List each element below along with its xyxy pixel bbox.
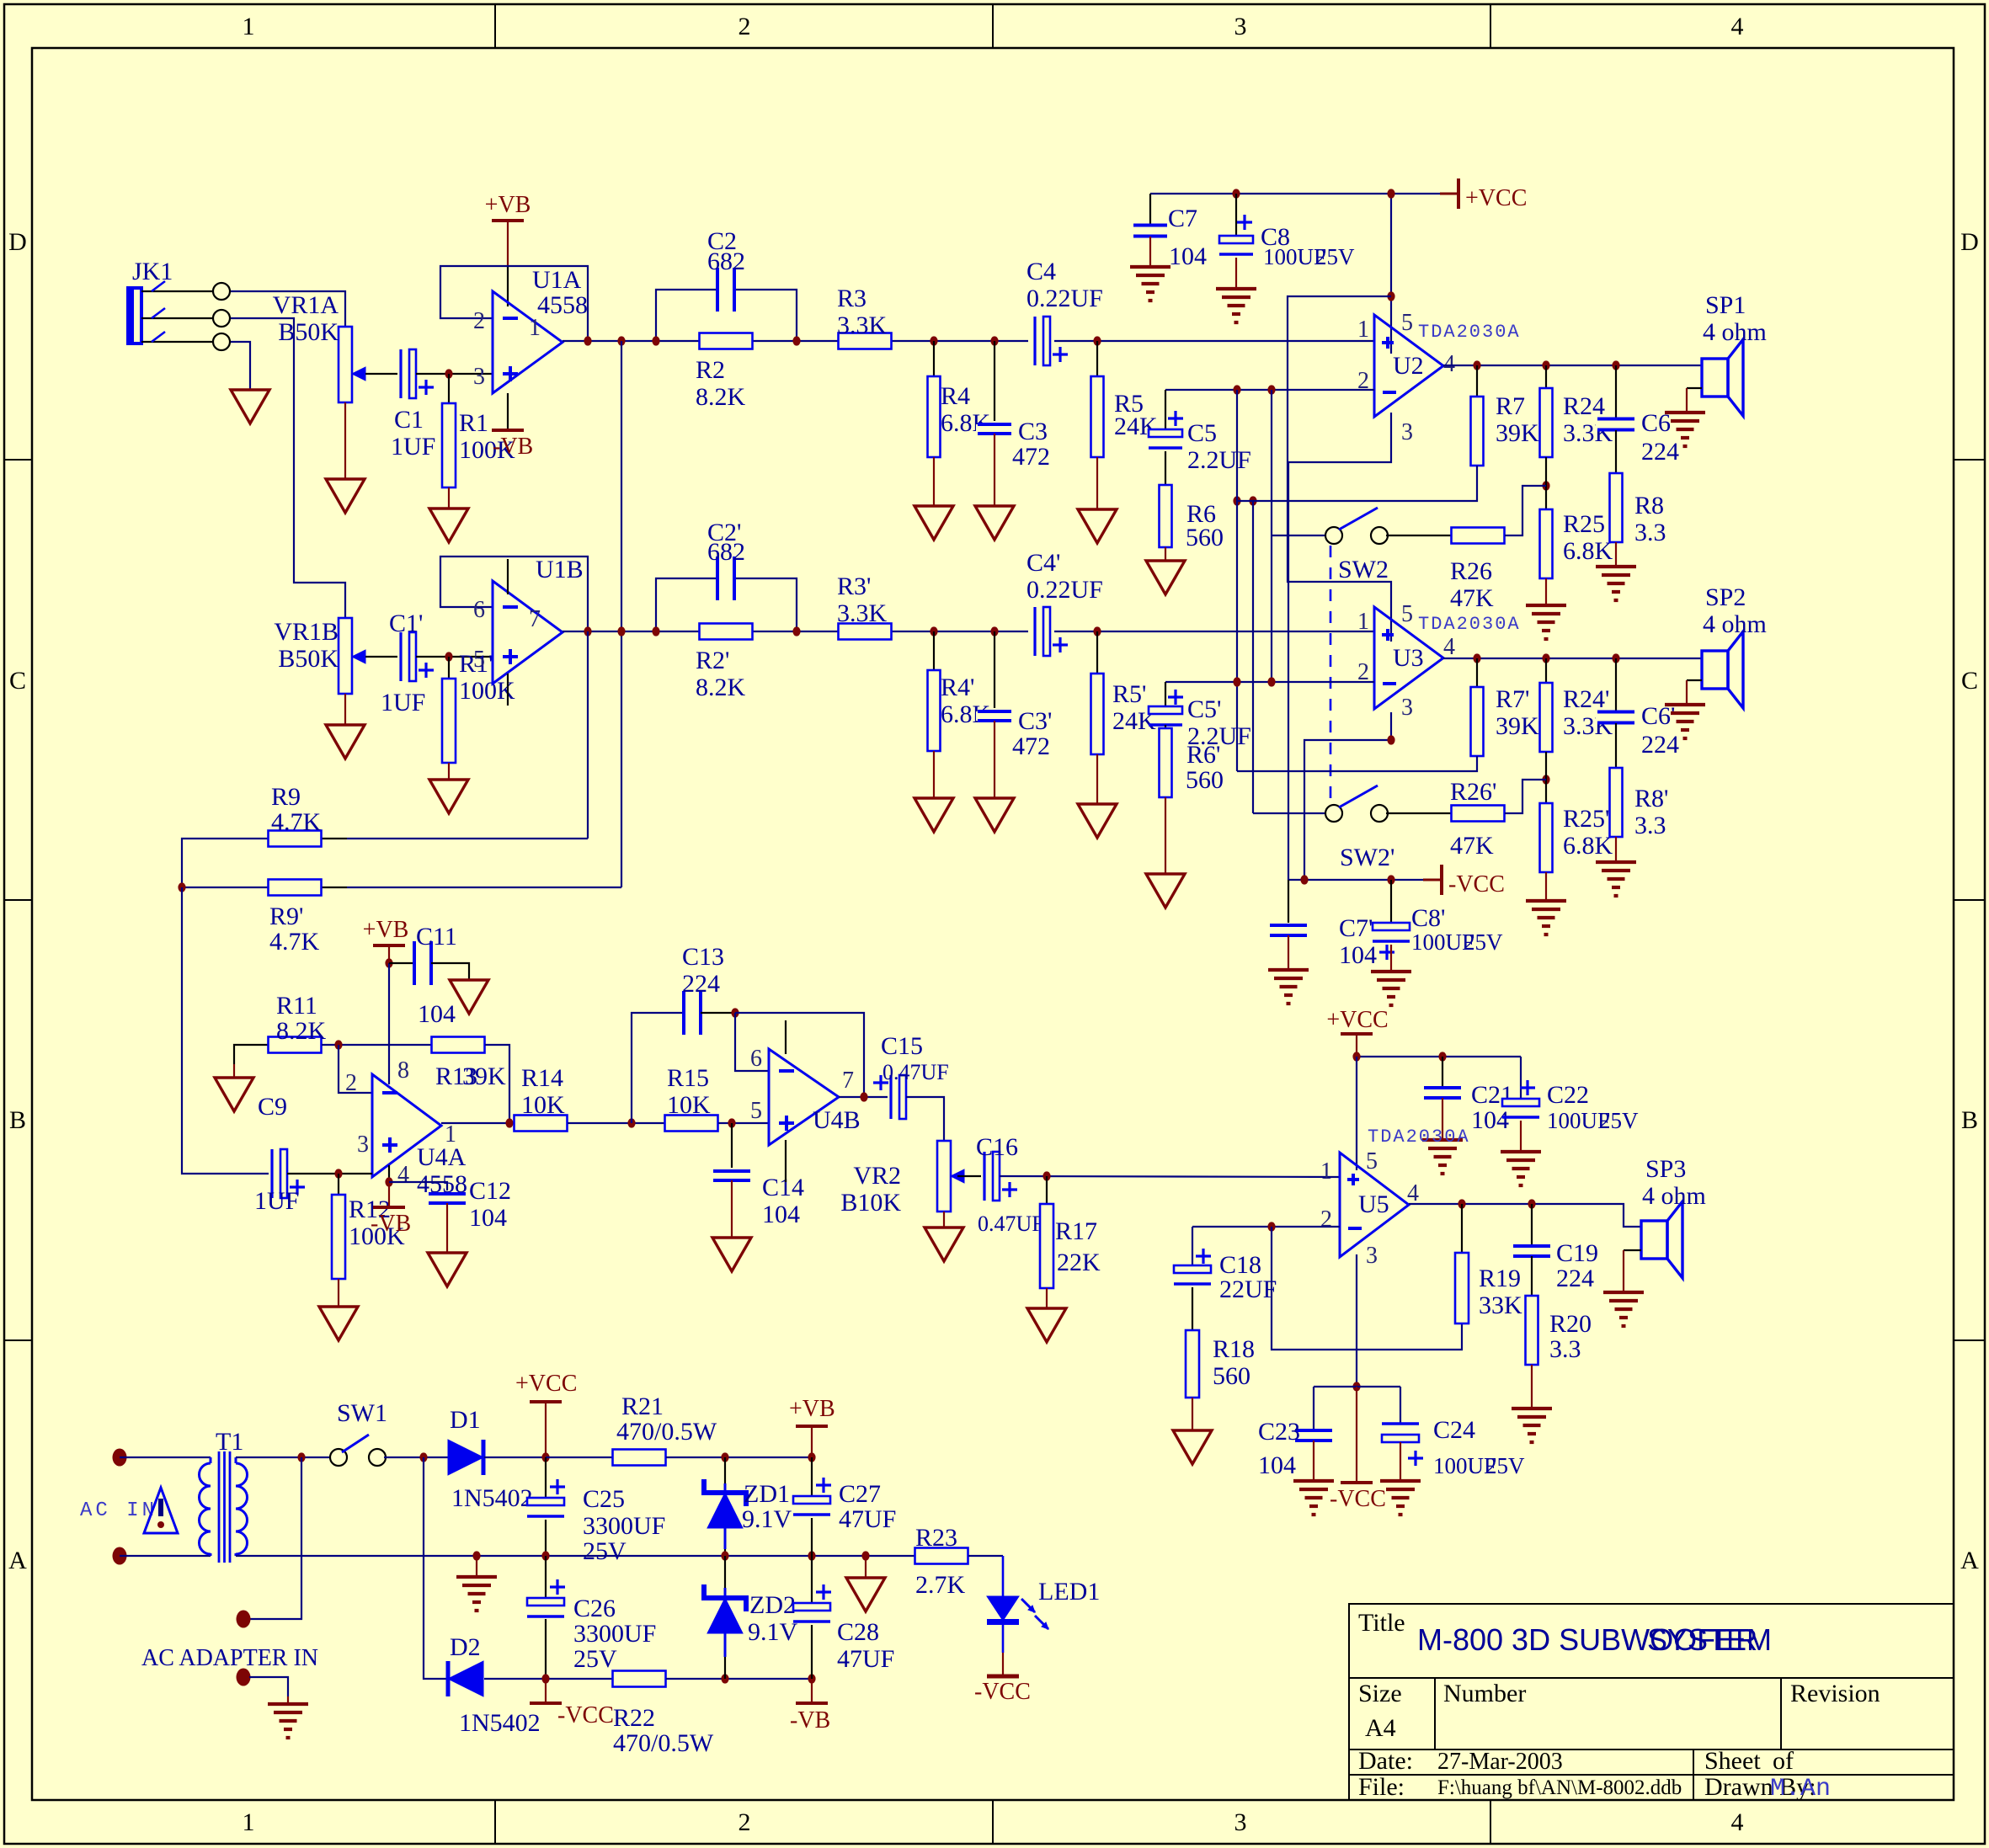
resistor R7 bbox=[1476, 365, 1478, 397]
capacitor C4' bbox=[1032, 605, 1052, 658]
svg-text:104: 104 bbox=[418, 1000, 456, 1028]
svg-text:R8: R8 bbox=[1634, 492, 1664, 519]
svg-text:47K: 47K bbox=[1450, 584, 1494, 612]
capacitor C14 bbox=[731, 1123, 733, 1168]
power -VB supply bbox=[811, 1679, 813, 1702]
svg-text:U5: U5 bbox=[1358, 1190, 1389, 1218]
svg-text:0.22UF: 0.22UF bbox=[1026, 285, 1103, 312]
ground VR1B bbox=[326, 725, 365, 759]
wire R6 to ground bbox=[1165, 547, 1166, 561]
wire R25' to ground bbox=[1545, 872, 1547, 901]
potentiometer VR2 bbox=[937, 1141, 951, 1212]
svg-text:2: 2 bbox=[345, 1070, 357, 1096]
svg-text:3.3K: 3.3K bbox=[837, 312, 888, 339]
svg-text:A4: A4 bbox=[1365, 1714, 1396, 1742]
svg-text:3: 3 bbox=[1234, 13, 1247, 40]
capacitor C24 bbox=[1400, 1387, 1401, 1424]
resistor R25 bbox=[1540, 509, 1553, 578]
node C6 top bbox=[1612, 360, 1619, 370]
svg-text:-VCC: -VCC bbox=[1448, 871, 1505, 897]
svg-text:U4B: U4B bbox=[813, 1106, 861, 1134]
svg-text:TDA2030A: TDA2030A bbox=[1418, 614, 1521, 635]
capacitor C18 bbox=[1192, 1227, 1193, 1265]
power -VB U4A bbox=[388, 1165, 390, 1182]
node C19 top bbox=[1528, 1199, 1535, 1208]
wire U2 pin3 to -VCC bus bbox=[1288, 413, 1391, 880]
svg-text:R2': R2' bbox=[696, 647, 729, 674]
svg-text:D: D bbox=[8, 228, 27, 256]
power -VCC U5 bbox=[1356, 1387, 1357, 1481]
svg-text:4: 4 bbox=[397, 1162, 409, 1188]
svg-text:B: B bbox=[9, 1106, 26, 1134]
capacitor C8 bbox=[1235, 194, 1237, 236]
svg-text:C3: C3 bbox=[1018, 418, 1048, 445]
node R24' top bbox=[1542, 653, 1549, 663]
ground R5' bbox=[1078, 804, 1117, 838]
svg-text:1: 1 bbox=[1320, 1158, 1332, 1185]
resistor R26' bbox=[1452, 806, 1505, 822]
wire C14 to ground bbox=[731, 1180, 733, 1238]
node mid rail gnd tap bbox=[472, 1551, 480, 1560]
svg-text:SW1: SW1 bbox=[337, 1399, 387, 1427]
svg-text:1N5402: 1N5402 bbox=[451, 1484, 533, 1512]
wire R1 to ground bbox=[448, 487, 450, 509]
svg-text:3.3: 3.3 bbox=[1634, 812, 1666, 839]
svg-text:4.7K: 4.7K bbox=[271, 808, 322, 836]
svg-text:25V: 25V bbox=[1599, 1108, 1639, 1133]
svg-text:2: 2 bbox=[739, 13, 751, 40]
wire jack ring to VR1B top bbox=[227, 318, 345, 619]
svg-text:224: 224 bbox=[1641, 731, 1679, 759]
wire R26 to R24 bottom bbox=[1505, 486, 1546, 535]
diode D1 1N5402 bbox=[448, 1440, 483, 1475]
node C27 bottom bbox=[808, 1551, 815, 1560]
svg-text:3: 3 bbox=[357, 1132, 369, 1158]
svg-text:R15: R15 bbox=[667, 1064, 709, 1092]
svg-text:VR1A: VR1A bbox=[273, 291, 339, 319]
node SW2 feed bbox=[1233, 385, 1240, 394]
node -VB supply bbox=[808, 1674, 815, 1683]
svg-text:4.7K: 4.7K bbox=[269, 928, 320, 956]
svg-text:C5': C5' bbox=[1187, 695, 1221, 723]
terminal AC input bottom bbox=[113, 1547, 127, 1565]
svg-text:682: 682 bbox=[707, 538, 745, 566]
svg-text:C26: C26 bbox=[573, 1595, 616, 1622]
wire supply zigzag to U3 bbox=[1288, 296, 1391, 642]
ground C7 earth bbox=[1130, 265, 1170, 269]
capacitor C28 bbox=[811, 1556, 813, 1603]
svg-text:R18: R18 bbox=[1213, 1335, 1255, 1363]
power -VB U1A bbox=[507, 393, 509, 429]
ground jack sleeve bbox=[231, 390, 269, 423]
svg-text:SW2: SW2 bbox=[1338, 556, 1389, 583]
svg-text:C28: C28 bbox=[837, 1618, 879, 1646]
resistor R3' bbox=[839, 624, 892, 640]
svg-text:4 ohm: 4 ohm bbox=[1642, 1182, 1706, 1210]
svg-text:B50K: B50K bbox=[278, 318, 339, 346]
svg-text:R9': R9' bbox=[269, 903, 303, 930]
wire U1A feedback loop bbox=[440, 266, 588, 341]
ground C8' earth bbox=[1371, 970, 1411, 973]
resistor R2 bbox=[700, 333, 753, 349]
svg-text:3: 3 bbox=[1366, 1243, 1378, 1269]
svg-text:R8': R8' bbox=[1634, 785, 1668, 812]
svg-text:1UF: 1UF bbox=[254, 1187, 299, 1215]
capacitor C6 bbox=[1615, 365, 1617, 419]
svg-text:470/0.5W: 470/0.5W bbox=[616, 1418, 717, 1446]
node T1 tap bbox=[297, 1452, 305, 1462]
switch SW1 bbox=[330, 1449, 347, 1466]
svg-text:R25: R25 bbox=[1563, 510, 1605, 538]
wire mid rail bbox=[236, 1555, 915, 1557]
wire SP1 to ground bbox=[1687, 387, 1702, 389]
wire AC bottom bbox=[120, 1555, 211, 1557]
resistor R6' bbox=[1165, 725, 1166, 728]
capacitor C19 bbox=[1531, 1204, 1533, 1246]
svg-text:22K: 22K bbox=[1057, 1249, 1101, 1276]
svg-text:R14: R14 bbox=[521, 1064, 563, 1092]
wire U4B output bbox=[839, 1096, 889, 1098]
node U5 supply rail bbox=[1352, 1052, 1360, 1061]
svg-text:4: 4 bbox=[1443, 634, 1455, 660]
power +VCC top bbox=[1440, 193, 1458, 195]
svg-text:25V: 25V bbox=[1464, 929, 1503, 955]
svg-text:560: 560 bbox=[1213, 1362, 1250, 1390]
capacitor C12 bbox=[389, 1182, 447, 1190]
capacitor C1 bbox=[397, 348, 418, 400]
wire adapter ground bbox=[249, 1677, 288, 1696]
wire jack tip to VR1A top bbox=[227, 291, 345, 327]
svg-text:D1: D1 bbox=[450, 1406, 481, 1434]
svg-text:104: 104 bbox=[1471, 1106, 1509, 1134]
node U1A pin3 bbox=[445, 369, 452, 378]
svg-text:SYSTEM: SYSTEM bbox=[1647, 1622, 1772, 1657]
svg-text:1UF: 1UF bbox=[381, 689, 425, 716]
capacitor C8' bbox=[1390, 880, 1392, 923]
wire R18 to ground bbox=[1192, 1398, 1193, 1430]
wire to D2 bbox=[424, 1457, 446, 1679]
node U2 supply bbox=[1387, 291, 1394, 301]
capacitor C2' bbox=[717, 555, 734, 602]
capacitor C16 bbox=[957, 1175, 981, 1177]
svg-text:+VB: +VB bbox=[363, 917, 409, 943]
svg-text:C22: C22 bbox=[1547, 1081, 1589, 1109]
ground R4' bbox=[915, 798, 953, 832]
wire C23 to ground bbox=[1313, 1441, 1314, 1481]
resistor R4 bbox=[933, 341, 935, 376]
switch SW2' bbox=[1252, 501, 1254, 813]
svg-text:A: A bbox=[1960, 1547, 1979, 1574]
node R19 top bbox=[1458, 1199, 1465, 1208]
svg-text:R3': R3' bbox=[837, 573, 871, 600]
wire U5 output bbox=[1409, 1204, 1641, 1227]
ground C3 bbox=[975, 506, 1014, 540]
ground R25 earth bbox=[1526, 604, 1566, 607]
resistor R11 bbox=[234, 1045, 268, 1064]
ground SP2 earth bbox=[1665, 703, 1705, 706]
svg-text:R2: R2 bbox=[696, 356, 725, 384]
svg-text:F:\huang bf\AN\M-8002.ddb: F:\huang bf\AN\M-8002.ddb bbox=[1437, 1776, 1682, 1799]
wire U5 pin3 bbox=[1356, 1254, 1357, 1387]
power -VCC supply bbox=[530, 1702, 562, 1705]
wire C2' branch bbox=[656, 578, 797, 631]
ground R6' bbox=[1146, 874, 1185, 908]
svg-text:104: 104 bbox=[1258, 1451, 1296, 1479]
svg-text:104: 104 bbox=[1339, 941, 1377, 969]
svg-text:8.2K: 8.2K bbox=[696, 383, 746, 411]
svg-text:1: 1 bbox=[1357, 609, 1369, 635]
svg-text:47UF: 47UF bbox=[839, 1505, 896, 1533]
svg-text:+VCC: +VCC bbox=[1326, 1007, 1388, 1033]
svg-text:C8': C8' bbox=[1411, 904, 1445, 932]
svg-text:47K: 47K bbox=[1450, 832, 1494, 860]
wire R8 to ground bbox=[1615, 542, 1617, 567]
svg-text:1: 1 bbox=[243, 13, 255, 40]
gang dashed link SW2-SW2' bbox=[1330, 546, 1332, 802]
wire C13 to U4B output bbox=[735, 1013, 864, 1097]
svg-text:U3: U3 bbox=[1393, 644, 1424, 672]
wire C8' to ground bbox=[1390, 945, 1392, 972]
capacitor C21 bbox=[1442, 1057, 1443, 1086]
svg-text:33K: 33K bbox=[1479, 1291, 1522, 1319]
capacitor C9 bbox=[269, 1148, 289, 1200]
svg-text:2: 2 bbox=[473, 308, 485, 334]
wire mixer input down to C9 bbox=[182, 887, 271, 1174]
svg-text:ZD1: ZD1 bbox=[744, 1480, 790, 1508]
svg-text:R25': R25' bbox=[1563, 805, 1609, 833]
svg-text:0.47UF: 0.47UF bbox=[978, 1212, 1044, 1236]
capacitor C7 bbox=[1149, 194, 1151, 224]
svg-text:3.3: 3.3 bbox=[1634, 519, 1666, 546]
node R13 join bbox=[505, 1118, 513, 1127]
node R5' top bbox=[1093, 626, 1101, 636]
ground VR2 bbox=[925, 1228, 963, 1261]
svg-text:C23: C23 bbox=[1258, 1418, 1300, 1446]
wire R25 to ground bbox=[1545, 578, 1547, 605]
svg-text:R26: R26 bbox=[1450, 557, 1492, 585]
svg-text:39K: 39K bbox=[462, 1062, 506, 1090]
wire R7 return bus bbox=[1236, 390, 1238, 771]
node U2 supply rail bbox=[1387, 189, 1394, 198]
wire +VCC rail U5 bbox=[1357, 1056, 1521, 1057]
wire R14 to R15 bbox=[568, 1122, 665, 1124]
svg-text:4: 4 bbox=[1731, 13, 1744, 40]
svg-text:C7: C7 bbox=[1168, 205, 1197, 232]
ground C3' bbox=[975, 798, 1014, 832]
wire R22 to -VB node bbox=[666, 1678, 812, 1680]
svg-text:5: 5 bbox=[1366, 1148, 1378, 1174]
svg-text:+VB: +VB bbox=[789, 1396, 835, 1422]
node R4' top bbox=[930, 626, 937, 636]
wire U3 pin2 input bbox=[1165, 681, 1374, 683]
node -VCC C8' bbox=[1387, 875, 1394, 884]
node U5 pin3 bus bbox=[1352, 1382, 1360, 1391]
svg-text:C1': C1' bbox=[389, 610, 423, 637]
svg-text:File:: File: bbox=[1358, 1773, 1405, 1801]
svg-text:C: C bbox=[9, 667, 26, 695]
node R24 bottom bbox=[1542, 481, 1549, 490]
svg-text:25V: 25V bbox=[1485, 1453, 1525, 1478]
wire C1 to U1A pin3 bbox=[416, 373, 493, 375]
potentiometer VR1B bbox=[339, 618, 352, 694]
svg-text:R23: R23 bbox=[915, 1524, 957, 1552]
resistor R4' bbox=[933, 631, 935, 670]
ground R4 bbox=[915, 506, 953, 540]
zener ZD1 bbox=[724, 1457, 726, 1483]
svg-text:U2: U2 bbox=[1393, 352, 1424, 380]
wire U5 feedback to R19 bbox=[1272, 1227, 1462, 1350]
svg-text:5: 5 bbox=[1401, 601, 1413, 627]
resistor R15 bbox=[665, 1116, 718, 1132]
svg-text:U4A: U4A bbox=[417, 1143, 467, 1171]
resistor R21 bbox=[613, 1450, 666, 1466]
node R9' tap bbox=[617, 336, 625, 345]
ground R5 bbox=[1078, 509, 1117, 543]
svg-text:R17: R17 bbox=[1055, 1217, 1097, 1245]
wire R7 bottom feedback bbox=[1237, 466, 1477, 501]
wire U2 output bbox=[1443, 365, 1702, 366]
wire secondary top bbox=[236, 1457, 332, 1458]
resistor R2' bbox=[700, 624, 753, 640]
power +VCC U5 bbox=[1341, 1032, 1373, 1036]
capacitor C4 bbox=[1032, 315, 1052, 367]
U4B supply stubs bbox=[785, 1020, 787, 1054]
svg-text:ZD2: ZD2 bbox=[749, 1591, 796, 1619]
speaker SP1 bbox=[1702, 359, 1728, 397]
resistor R24 bbox=[1545, 365, 1547, 388]
svg-text:1: 1 bbox=[445, 1121, 456, 1148]
capacitor C27 bbox=[811, 1457, 813, 1496]
resistor R5 bbox=[1096, 341, 1098, 376]
svg-text:560: 560 bbox=[1186, 524, 1224, 551]
svg-text:39K: 39K bbox=[1496, 712, 1539, 740]
border row ticks left bbox=[4, 459, 32, 461]
svg-text:C12: C12 bbox=[469, 1177, 511, 1205]
svg-text:SP2: SP2 bbox=[1705, 583, 1746, 611]
terminal AC adapter top bbox=[237, 1611, 251, 1628]
svg-text:25V: 25V bbox=[1315, 244, 1355, 269]
capacitor C5' bbox=[1165, 682, 1166, 706]
svg-text:682: 682 bbox=[707, 248, 745, 275]
svg-text:AC ADAPTER IN: AC ADAPTER IN bbox=[141, 1645, 318, 1671]
wire C2 branch bbox=[656, 290, 797, 341]
svg-text:R20: R20 bbox=[1549, 1310, 1592, 1338]
svg-text:-VB: -VB bbox=[493, 434, 533, 460]
svg-text:R4: R4 bbox=[941, 382, 970, 410]
svg-text:3: 3 bbox=[1401, 419, 1413, 445]
wire R7' bottom feedback bbox=[1237, 756, 1477, 771]
power -VCC mid bbox=[1423, 879, 1442, 881]
op-amp U4B bbox=[769, 1049, 839, 1145]
resistor R22 bbox=[613, 1671, 666, 1687]
svg-text:2: 2 bbox=[1320, 1206, 1332, 1233]
svg-text:560: 560 bbox=[1186, 766, 1224, 794]
op-amp U1B bbox=[493, 581, 563, 684]
svg-text:R6': R6' bbox=[1186, 741, 1220, 769]
svg-text:0.22UF: 0.22UF bbox=[1026, 576, 1103, 604]
svg-text:470/0.5W: 470/0.5W bbox=[613, 1729, 714, 1757]
wire C8 to ground bbox=[1235, 258, 1237, 289]
svg-text:C9: C9 bbox=[258, 1093, 287, 1121]
node R4 top bbox=[930, 336, 937, 345]
svg-text:R7: R7 bbox=[1496, 392, 1525, 420]
svg-text:224: 224 bbox=[682, 970, 720, 998]
svg-text:9.1V: 9.1V bbox=[748, 1618, 798, 1646]
U1B supply stubs bbox=[507, 559, 509, 594]
svg-text:1: 1 bbox=[1357, 317, 1369, 343]
svg-text:JK1: JK1 bbox=[132, 258, 173, 285]
svg-text:3300UF: 3300UF bbox=[583, 1512, 665, 1540]
svg-text:TDA2030A: TDA2030A bbox=[1368, 1126, 1470, 1148]
wire jack sleeve to ground bbox=[227, 342, 250, 390]
connector JK1 bbox=[128, 288, 141, 344]
svg-text:7: 7 bbox=[842, 1068, 854, 1094]
wire tap to adapter terminal bbox=[249, 1457, 301, 1619]
svg-text:1: 1 bbox=[529, 315, 541, 341]
svg-text:3.3: 3.3 bbox=[1549, 1335, 1581, 1363]
svg-text:of: of bbox=[1773, 1747, 1794, 1775]
svg-text:224: 224 bbox=[1641, 438, 1679, 466]
ground VR1A bbox=[326, 479, 365, 513]
svg-text:R7': R7' bbox=[1496, 685, 1529, 713]
ground R8' earth bbox=[1596, 860, 1636, 864]
node R23 gnd tap bbox=[861, 1551, 869, 1560]
wire U5 pin2 input bbox=[1192, 1226, 1340, 1228]
wire U3 pin3 to -VCC bus bbox=[1304, 712, 1391, 880]
ground SP1 earth bbox=[1665, 411, 1705, 414]
wire SP2 to ground bbox=[1687, 679, 1702, 681]
svg-text:C3': C3' bbox=[1018, 707, 1052, 735]
terminal AC input top bbox=[113, 1449, 127, 1467]
op-amp U3 TDA2030A bbox=[1374, 607, 1443, 709]
svg-text:8: 8 bbox=[397, 1057, 409, 1084]
wire SW2 to R26 bbox=[1386, 535, 1452, 536]
node R7 feedback join bbox=[1249, 496, 1256, 505]
ground C21 earth bbox=[1422, 1138, 1463, 1142]
svg-text:4558: 4558 bbox=[537, 291, 588, 319]
wire SW2' to R26' bbox=[1386, 812, 1452, 814]
node C21 tap bbox=[1438, 1052, 1446, 1061]
potentiometer VR1A bbox=[339, 327, 352, 402]
LED LED1 bbox=[987, 1596, 1019, 1621]
svg-text:R11: R11 bbox=[276, 992, 317, 1020]
diode D2 1N5402 bbox=[448, 1661, 483, 1696]
svg-text:-VCC: -VCC bbox=[974, 1679, 1031, 1705]
svg-text:SP1: SP1 bbox=[1705, 291, 1746, 319]
svg-text:4 ohm: 4 ohm bbox=[1703, 318, 1767, 346]
capacitor C25 bbox=[545, 1457, 547, 1498]
ground R12 bbox=[319, 1307, 358, 1340]
resistor R23 bbox=[915, 1548, 968, 1564]
node R5 top bbox=[1093, 336, 1101, 345]
node D2 branch bbox=[419, 1452, 427, 1462]
node ZD1 top bbox=[721, 1452, 728, 1462]
resistor R8 bbox=[1615, 430, 1617, 473]
svg-text:C7': C7' bbox=[1339, 914, 1373, 942]
node R7' top bbox=[1473, 653, 1480, 663]
svg-text:R1: R1 bbox=[459, 409, 488, 437]
node R24 top bbox=[1542, 360, 1549, 370]
svg-text:6: 6 bbox=[473, 597, 485, 623]
svg-text:AC IN: AC IN bbox=[80, 1499, 157, 1522]
svg-text:+VCC: +VCC bbox=[515, 1371, 577, 1397]
svg-text:D: D bbox=[1960, 228, 1979, 256]
svg-text:472: 472 bbox=[1012, 443, 1050, 471]
resistor R9' bbox=[182, 887, 269, 888]
svg-text:104: 104 bbox=[469, 1204, 507, 1232]
ground mid rail earth bbox=[456, 1575, 497, 1579]
wire gnd tap bbox=[476, 1556, 477, 1577]
